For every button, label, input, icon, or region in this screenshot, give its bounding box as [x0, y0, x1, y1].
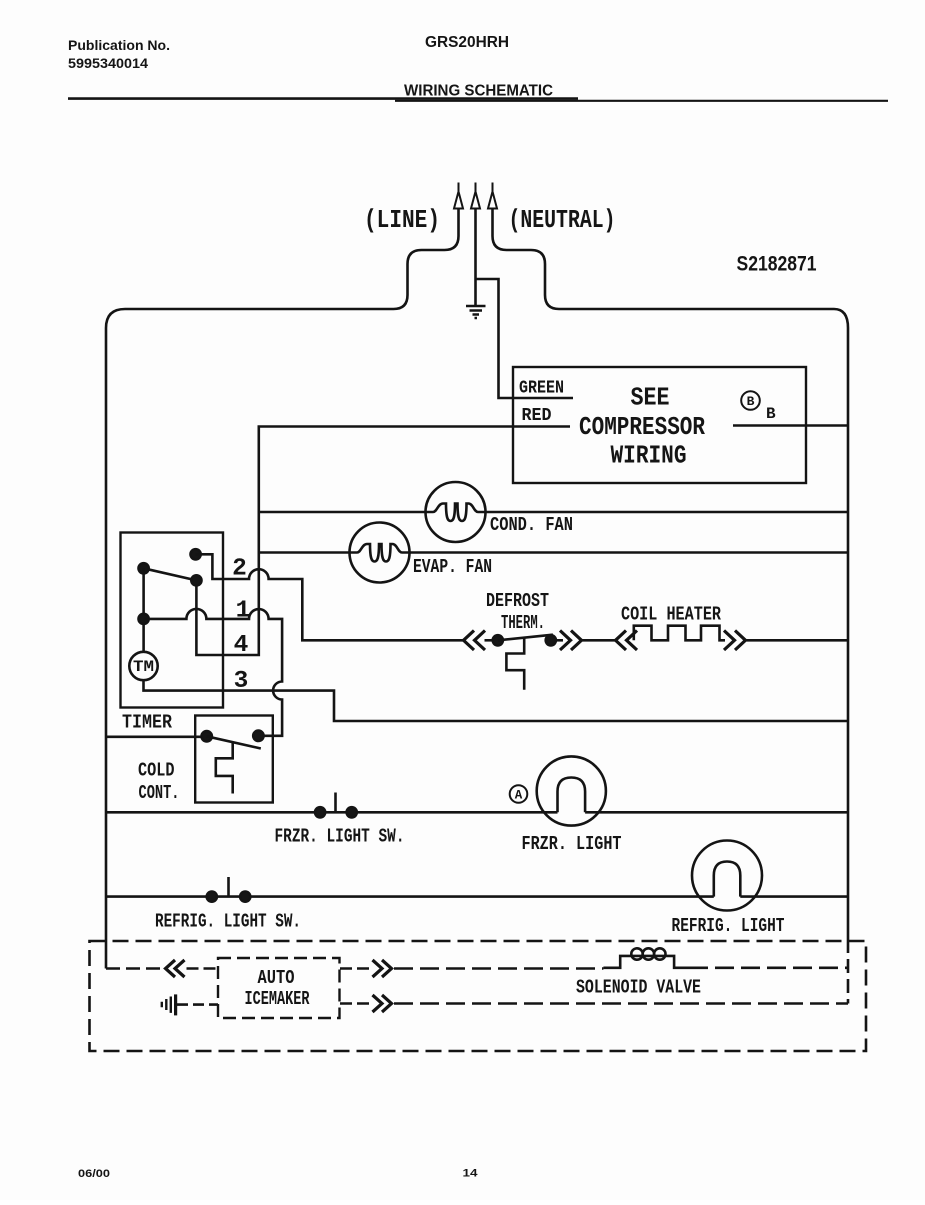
wire icemaker return to right rail dashed — [394, 1002, 848, 1005]
icemaker dashed enclosure — [90, 941, 867, 1051]
svg-text:GREEN: GREEN — [519, 379, 564, 399]
wire to solenoid valve dashed — [394, 967, 603, 970]
svg-text:COMPRESSOR: COMPRESSOR — [579, 412, 705, 442]
evaporator fan motor — [350, 523, 410, 583]
text SEE COMPRESSOR WIRING — [579, 383, 705, 471]
wire coil heater to right rail — [747, 639, 849, 642]
defrost thermostat sensor — [506, 638, 524, 690]
svg-text:A: A — [515, 789, 523, 803]
plug prong GROUND — [471, 183, 480, 209]
plug prong NEUTRAL — [488, 183, 497, 209]
svg-text:REFRIG. LIGHT: REFRIG. LIGHT — [672, 915, 785, 937]
svg-text:2: 2 — [232, 556, 247, 583]
refrigerator light switch row — [106, 895, 714, 898]
wire compressor B to right rail — [733, 424, 848, 427]
wire timer pivot to TM motor — [142, 568, 145, 652]
label DEFROST THERM. — [486, 590, 549, 634]
header rule — [68, 97, 578, 100]
timer box — [121, 533, 224, 708]
connector chevrons into icemaker — [166, 960, 185, 977]
svg-text:5995340014: 5995340014 — [68, 55, 148, 71]
wire NEUTRAL input to right rail — [493, 209, 849, 954]
svg-text:ICEMAKER: ICEMAKER — [245, 988, 310, 1010]
icemaker return row dashed — [340, 1002, 371, 1005]
svg-text:TIMER: TIMER — [122, 712, 173, 734]
header publication number — [68, 34, 553, 100]
icemaker ground symbol — [162, 997, 171, 1013]
timer contact dot A — [191, 549, 201, 559]
svg-text:TM: TM — [133, 658, 154, 676]
condenser fan motor — [426, 482, 486, 542]
timer pivot dot — [139, 563, 149, 573]
timer switch arm — [144, 568, 197, 580]
auto icemaker box dashed — [218, 958, 340, 1018]
timer motor TM — [129, 652, 157, 680]
connector chevrons out of icemaker row 1 — [373, 960, 392, 977]
label AUTO ICEMAKER — [245, 967, 310, 1010]
wire left rail to cold control — [106, 735, 207, 738]
wire evaporator fan row — [259, 551, 848, 554]
solenoid valve coil — [603, 956, 689, 968]
wire solenoid to right rail dashed — [689, 966, 848, 969]
refrigerator light switch dots and plunger — [207, 892, 217, 902]
svg-text:AUTO: AUTO — [258, 967, 295, 989]
right rail lower dashed segment — [847, 959, 850, 1004]
wire between connectors — [582, 639, 615, 642]
terminal B circled — [741, 391, 760, 410]
connector chevrons left of defrost thermostat — [464, 631, 486, 651]
svg-text:REFRIG. LIGHT SW.: REFRIG. LIGHT SW. — [155, 911, 301, 933]
timer junction dot D — [139, 614, 149, 624]
svg-text:SEE: SEE — [631, 383, 670, 413]
wire timer terminal 1 to cold control — [144, 609, 283, 736]
svg-text:S2182871: S2182871 — [737, 253, 817, 276]
coil heater element — [634, 626, 725, 641]
wire chevron to icemaker box — [187, 967, 219, 970]
plug prong LINE — [454, 183, 463, 209]
connector chevrons right of coil heater — [724, 631, 746, 651]
connector chevrons left of coil heater — [616, 631, 638, 651]
icemaker supply row dashed — [106, 967, 164, 970]
wire LINE input to left rail — [106, 209, 459, 969]
svg-text:B: B — [747, 394, 755, 409]
svg-text:COLD: COLD — [138, 760, 175, 782]
svg-text:EVAP. FAN: EVAP. FAN — [413, 556, 492, 578]
svg-text:14: 14 — [463, 1168, 479, 1180]
connector chevrons right of defrost thermostat — [560, 631, 582, 651]
wire timer terminal 2 to defrost row — [196, 554, 463, 640]
svg-text:(LINE): (LINE) — [364, 205, 440, 235]
freezer light switch dots and plunger — [315, 807, 325, 817]
defrost thermostat — [485, 639, 495, 642]
svg-text:SOLENOID VALVE: SOLENOID VALVE — [576, 977, 701, 999]
svg-text:FRZR. LIGHT SW.: FRZR. LIGHT SW. — [275, 826, 405, 848]
timer contact dot C — [191, 575, 201, 585]
cold control contact dots — [202, 731, 212, 741]
svg-text:CONT.: CONT. — [139, 782, 180, 804]
wire ground prong down — [474, 209, 477, 306]
svg-text:COND. FAN: COND. FAN — [490, 514, 573, 536]
svg-text:B: B — [766, 405, 776, 423]
freezer light switch row — [106, 811, 558, 814]
svg-text:RED: RED — [522, 406, 552, 426]
cold control arm — [207, 736, 261, 748]
svg-text:THERM.: THERM. — [501, 612, 545, 634]
ground symbol — [466, 306, 486, 318]
svg-text:FRZR. LIGHT: FRZR. LIGHT — [522, 833, 622, 855]
svg-text:DEFROST: DEFROST — [486, 590, 549, 612]
label COLD CONT. — [138, 760, 180, 805]
wire condenser fan row — [259, 511, 848, 514]
cold control sensor element — [216, 742, 233, 793]
wire timer terminal 3 to right rail — [144, 680, 849, 721]
cold control box — [195, 716, 273, 803]
svg-text:COIL HEATER: COIL HEATER — [621, 604, 721, 626]
svg-text:06/00: 06/00 — [78, 1168, 110, 1180]
svg-text:Publication No.: Publication No. — [68, 37, 170, 53]
refrigerator light bulb — [692, 841, 762, 911]
svg-text:WIRING: WIRING — [611, 441, 687, 471]
svg-text:GRS20HRH: GRS20HRH — [425, 34, 509, 51]
svg-text:WIRING SCHEMATIC: WIRING SCHEMATIC — [404, 83, 553, 100]
wire ground to icemaker box — [177, 1003, 218, 1006]
freezer light bulb — [537, 756, 606, 825]
svg-text:3: 3 — [234, 668, 249, 695]
svg-text:(NEUTRAL): (NEUTRAL) — [509, 205, 616, 235]
wire ground branch to GREEN — [476, 279, 574, 398]
terminal A circled — [510, 785, 528, 803]
compressor wiring box — [513, 367, 806, 483]
svg-text:1: 1 — [236, 598, 251, 625]
svg-text:4: 4 — [234, 632, 249, 659]
icemaker output row 1 dashed — [340, 967, 371, 970]
connector chevrons out of icemaker row 2 — [373, 995, 392, 1012]
wire RED feed / timer terminal 4 — [196, 427, 570, 656]
